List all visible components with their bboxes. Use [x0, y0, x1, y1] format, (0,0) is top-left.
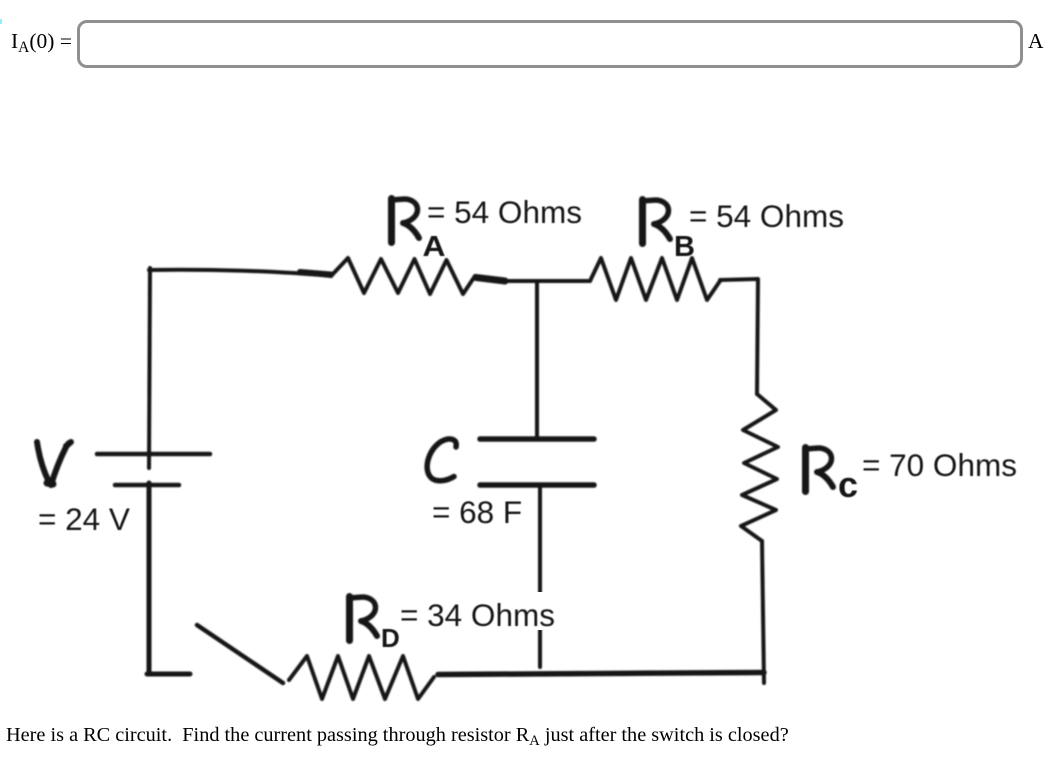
label R_A handwritten [391, 199, 419, 243]
node junction after R_A [476, 278, 505, 282]
switch (open) [197, 625, 283, 683]
wire R_C to bottom-right corner [762, 541, 764, 683]
label background for R_D value [399, 592, 556, 630]
resistor R_B [590, 258, 720, 300]
label R_B handwritten [642, 200, 670, 244]
battery negative plate [115, 483, 179, 488]
svg-text:= 34 Ohms: = 34 Ohms [400, 597, 555, 633]
svg-text:B: B [674, 231, 695, 263]
label R_D handwritten [349, 597, 377, 641]
stray cyan mark [0, 19, 2, 24]
label V handwritten [37, 442, 71, 485]
question text [6, 724, 789, 750]
capacitor top plate [480, 436, 594, 442]
resistor R_D [289, 656, 434, 699]
resistor R_C [741, 394, 778, 541]
wire top-left horizontal [149, 270, 331, 276]
resistor R_A [331, 258, 475, 294]
unit label A [1028, 31, 1044, 53]
svg-text:= 68 F: = 68 F [432, 494, 522, 530]
svg-text:c: c [838, 464, 858, 505]
svg-text:= 54 Ohms: = 54 Ohms [689, 198, 844, 234]
battery positive plate [97, 452, 210, 457]
svg-text:A: A [423, 231, 446, 263]
wire bottom horizontal [438, 673, 764, 675]
wire battery negative to bottom-left corner [147, 483, 190, 674]
answer input box [77, 20, 1023, 69]
capacitor bottom plate [480, 482, 594, 488]
capacitor top lead [535, 281, 539, 438]
answer label I_A(0)= [11, 31, 72, 56]
svg-text:= 54 Ohms: = 54 Ohms [427, 194, 582, 230]
wire R_B to top-right corner [720, 279, 758, 394]
label C handwritten [427, 439, 456, 481]
wire left vertical [149, 268, 150, 468]
capacitor bottom lead [538, 487, 542, 667]
svg-text:D: D [381, 623, 400, 653]
label R_C handwritten [805, 448, 833, 492]
svg-text:= 24 V: = 24 V [38, 501, 130, 537]
wire R_A to R_B [503, 279, 590, 283]
svg-text:= 70 Ohms: = 70 Ohms [862, 447, 1017, 483]
